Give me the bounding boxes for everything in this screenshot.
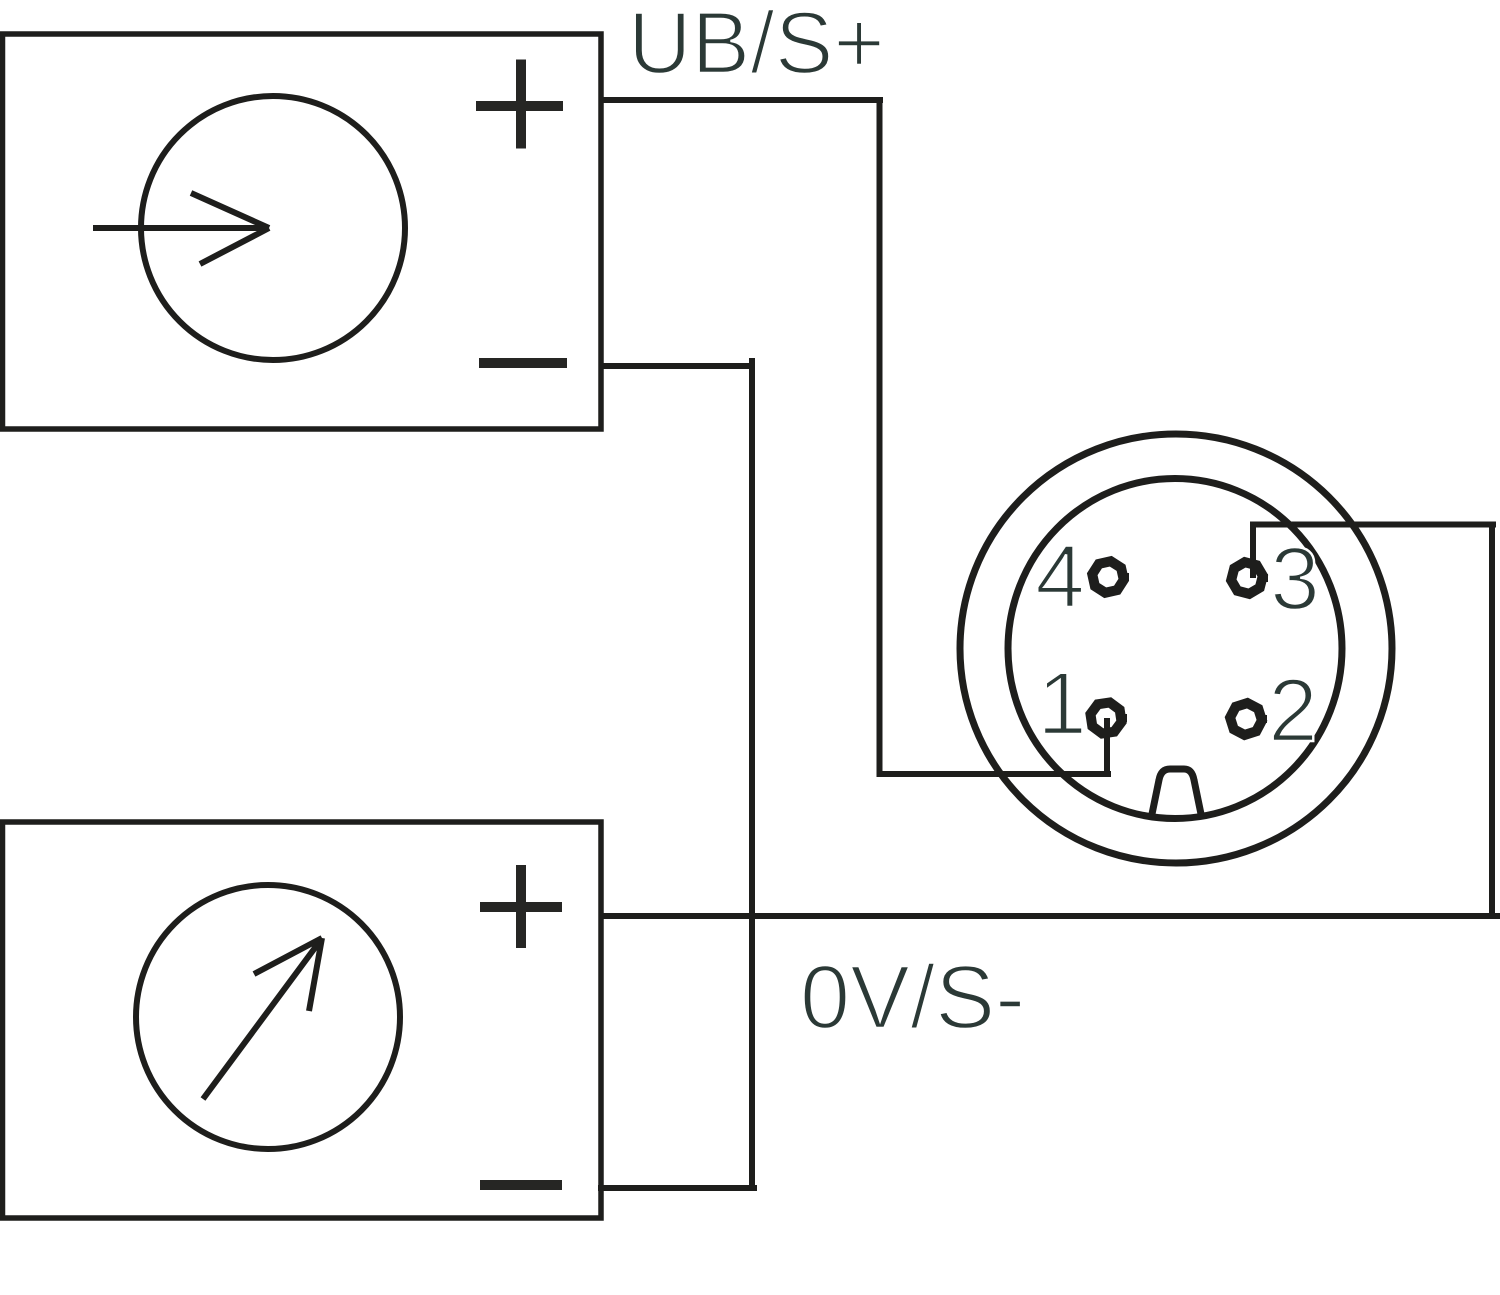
connector inner circle <box>1008 479 1342 819</box>
plus terminal (top box) <box>476 60 563 149</box>
wire: right edge vertical <box>1489 525 1495 920</box>
keying notch <box>1152 769 1201 814</box>
wire: bottom box + long run <box>601 913 1500 919</box>
pin 2 <box>1229 702 1267 737</box>
svg-text:2: 2 <box>1268 660 1318 760</box>
transmitter box B1 (top) <box>3 34 602 429</box>
pin 4 <box>1089 558 1129 595</box>
wire: horizontal run to pin 1 <box>877 771 1112 777</box>
svg-text:3: 3 <box>1270 528 1320 628</box>
pin 3 <box>1229 560 1268 596</box>
svg-text:0V/S-: 0V/S- <box>800 948 1025 1048</box>
wire: bottom box - stub <box>598 1185 757 1191</box>
pin 1 <box>1087 699 1127 738</box>
wire: pin 1 stem <box>1104 718 1110 777</box>
wire: pin 3 run to right edge <box>1250 522 1496 528</box>
connector outer ring <box>960 434 1392 863</box>
indicator box B2 (bottom) <box>3 822 602 1218</box>
plus terminal (bottom box) <box>480 865 562 948</box>
svg-text:4: 4 <box>1035 526 1085 626</box>
minus terminal (bottom box) <box>480 1180 562 1190</box>
meter circle (bottom) <box>136 885 400 1149</box>
arrow (top, pointing right) <box>93 193 269 264</box>
current source circle (top) <box>141 96 405 360</box>
minus terminal (top box) <box>479 358 567 368</box>
svg-text:1: 1 <box>1037 653 1087 753</box>
wire: top box - to mid riser <box>601 363 752 369</box>
arrow (bottom, diagonal) <box>203 938 322 1099</box>
wire: vertical riser down to pin-1 run <box>877 97 883 777</box>
svg-text:UB/S+: UB/S+ <box>628 0 885 92</box>
wire: pin 3 stem <box>1250 522 1256 579</box>
wire: top box + to vertical riser <box>601 97 883 103</box>
wire: mid vertical riser <box>749 358 755 1191</box>
